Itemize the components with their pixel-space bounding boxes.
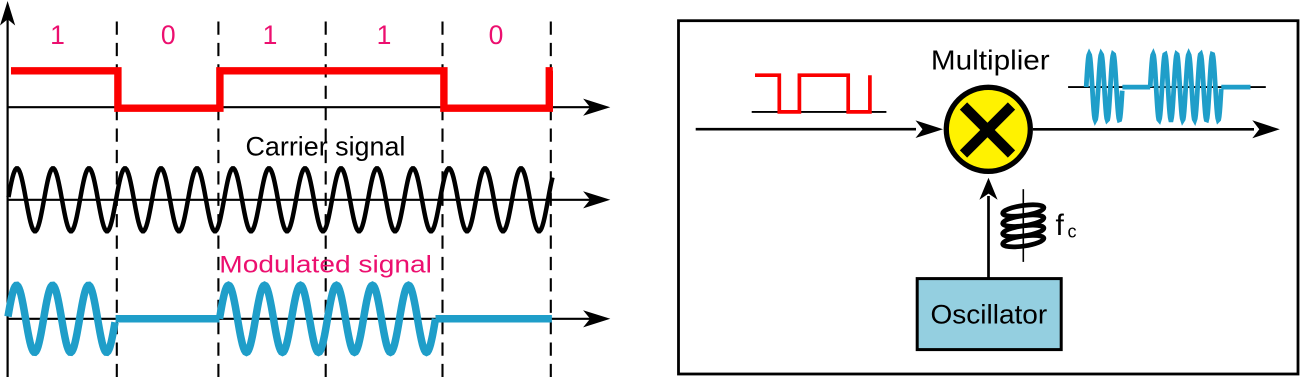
vertical axis [0,1,15,377]
digital data signal (red) bits 1 0 1 1 0 [11,71,553,108]
svg-text:1: 1 [263,20,278,50]
output modulated burst 1 (cyan) [1086,54,1122,120]
svg-text:1: 1 [50,20,65,50]
bit boundary dashed line 3 [325,22,327,377]
label f_c [1056,209,1077,242]
input data waveform baseline [752,111,887,113]
svg-text:Multiplier: Multiplier [931,45,1050,76]
modulated wave flat bit 5 (cyan) [436,315,552,323]
svg-text:0: 0 [161,20,176,50]
bit boundary dashed line 4 [441,22,443,377]
modulated signal time axis [8,310,611,327]
carrier signal time axis [8,191,611,208]
multiplier mixer circle [946,87,1030,171]
svg-text:0: 0 [489,20,504,50]
svg-text:Oscillator: Oscillator [931,300,1048,330]
svg-text:f: f [1056,209,1065,242]
input data waveform (red square wave) [755,75,870,112]
bit boundary dashed line 1 [116,22,118,377]
coil axis line [1022,189,1024,262]
output wire [1033,120,1280,138]
svg-text:Modulated signal: Modulated signal [219,251,432,278]
multiplier X symbol [964,106,1012,154]
input wire [696,120,943,138]
svg-text:1: 1 [377,20,392,50]
oscillator block [917,279,1061,350]
output flat segment 2 (cyan) [1221,85,1250,90]
modulated wave burst bits 3-4 (cyan) [220,285,436,352]
carrier sine wave [9,168,553,231]
bit boundary dashed line 5 [550,22,552,377]
output flat segment 1 (cyan) [1122,85,1150,90]
modulated wave flat bit 2 (cyan) [116,315,220,323]
inductor coil fc [1002,203,1045,249]
data signal time axis [8,99,611,116]
svg-text:Carrier signal: Carrier signal [246,132,406,162]
output waveform baseline [1068,86,1266,88]
oscillator wire (up arrow) [979,178,997,279]
bit boundary dashed line 2 [217,22,219,377]
output modulated burst 2 (cyan) [1150,54,1221,120]
svg-text:c: c [1068,222,1077,242]
block diagram frame [679,21,1299,374]
modulated wave burst bit 1 (cyan) [8,285,115,352]
